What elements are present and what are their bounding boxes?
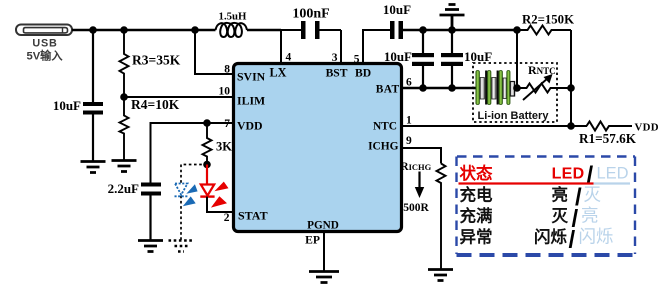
svg-text:ICHG: ICHG [368, 141, 399, 153]
svg-text:LED: LED [552, 166, 585, 183]
wire: R2 right drop [570, 30, 572, 126]
wire: ICHG [402, 148, 441, 164]
inductor L1 1.5uH [216, 11, 248, 38]
svg-text:3: 3 [332, 52, 338, 64]
wire: SVIN drop [195, 30, 233, 74]
capacitor C1 10uF [53, 30, 103, 161]
table row 3: 充满 灭 / 亮 [460, 206, 599, 233]
LED state table dashed box [457, 157, 637, 256]
ground: below R4 [112, 161, 137, 172]
battery BT1 dashed box [473, 63, 557, 122]
capacitor C5 10uF [384, 30, 434, 88]
wire: LX riser [280, 30, 282, 63]
svg-text:5: 5 [354, 54, 360, 66]
svg-text:2: 2 [224, 212, 230, 224]
capacitor C2 2.2uF [108, 181, 161, 240]
ground: below RICHG [428, 270, 453, 281]
wire: top output rail [403, 29, 517, 31]
node A: input cap junction [89, 26, 97, 34]
svg-text:R1=57.6K: R1=57.6K [579, 131, 637, 146]
svg-text:8: 8 [224, 64, 230, 76]
wire: BAT rail [402, 87, 476, 89]
svg-text:ILIM: ILIM [237, 94, 265, 108]
wire: ILIM to node C [124, 96, 233, 98]
LED D1 (red) [200, 165, 233, 213]
svg-text:6: 6 [406, 77, 412, 89]
svg-text:RICHG: RICHG [401, 161, 432, 173]
ground: below EP [309, 272, 339, 283]
table row 4: 异常 闪烁 / 闪烁 [460, 227, 614, 254]
node K [448, 84, 456, 92]
svg-text:2.2uF: 2.2uF [108, 181, 139, 196]
svg-text:10uF: 10uF [383, 2, 411, 17]
wire: dashed alternate LED branch [181, 165, 207, 241]
resistor R4 10K [120, 97, 180, 160]
ground: below C2 [138, 241, 163, 252]
ground: inverted above rail [440, 5, 465, 31]
thermistor RNTC [517, 63, 571, 100]
svg-text:SVIN: SVIN [237, 70, 266, 84]
resistor R1 57.6K [579, 122, 659, 147]
svg-text:亮: 亮 [552, 185, 569, 205]
node M [567, 84, 575, 92]
capacitor C3 100nF [281, 7, 341, 40]
svg-text:R4=10K: R4=10K [131, 97, 180, 112]
wire: NTC line [402, 125, 587, 127]
svg-text:7: 7 [224, 118, 230, 130]
svg-text:状态: 状态 [460, 163, 494, 183]
svg-text:500R: 500R [403, 202, 429, 214]
ground: dashed alt ground [169, 241, 194, 252]
node N [567, 122, 575, 130]
svg-text:VDD: VDD [635, 122, 659, 134]
svg-text:BAT: BAT [376, 84, 400, 96]
node B: R3 top junction [120, 26, 128, 34]
node D: SVIN junction [191, 26, 199, 34]
wire: battery + to rail [516, 30, 518, 88]
svg-text:BST: BST [326, 67, 348, 80]
svg-text:RNTC: RNTC [528, 63, 556, 77]
wire: EP to ground [323, 232, 325, 272]
wire: USB to LX rail [72, 29, 281, 31]
svg-text:10uF: 10uF [464, 49, 492, 64]
svg-text:USB: USB [32, 37, 57, 49]
LED D2 (blue alternate) [175, 184, 198, 207]
ground: below C1 [81, 162, 106, 173]
svg-text:异常: 异常 [460, 227, 493, 247]
svg-text:LX: LX [270, 66, 287, 80]
svg-text:Li-ion Battery: Li-ion Battery [478, 110, 550, 122]
svg-text:EP: EP [305, 234, 320, 247]
USB connector J1 [16, 25, 72, 63]
node C: R3/R4 junction [120, 93, 128, 101]
node F: LED anode junction [203, 161, 211, 169]
node G [419, 26, 427, 34]
svg-text:10: 10 [219, 86, 231, 98]
svg-text:1: 1 [406, 115, 412, 127]
svg-text:充电: 充电 [460, 185, 494, 205]
svg-text:STAT: STAT [238, 209, 268, 223]
node H [448, 26, 456, 34]
wire: VDD net to decoupling [151, 123, 234, 183]
svg-text:PGND: PGND [307, 220, 339, 232]
resistor R3 35K [120, 30, 181, 97]
resistor R5 3K [203, 123, 233, 165]
svg-text:充满: 充满 [460, 206, 493, 226]
node J [419, 84, 427, 92]
battery BT1 cells [473, 71, 549, 123]
svg-text:灭: 灭 [552, 207, 569, 226]
svg-text:R2=150K: R2=150K [522, 13, 574, 27]
IC U1 charger body [234, 64, 402, 232]
svg-text:VDD: VDD [237, 119, 263, 133]
svg-text:灭: 灭 [584, 185, 602, 205]
node L [513, 84, 521, 92]
table row 1: 状态 LED / LED [459, 162, 631, 189]
svg-text:闪烁: 闪烁 [579, 227, 614, 247]
svg-text:闪烁: 闪烁 [534, 227, 568, 247]
resistor RICHG 500R [401, 161, 446, 269]
svg-text:R3=35K: R3=35K [132, 53, 181, 68]
svg-text:NTC: NTC [373, 121, 397, 133]
svg-text:5V输入: 5V输入 [26, 49, 63, 63]
svg-text:1.5uH: 1.5uH [219, 11, 248, 23]
wire: BD riser [363, 30, 390, 63]
node E: 3K top junction [203, 119, 211, 127]
table row 2: 充电 亮 / 灭 [460, 184, 602, 211]
node I: R2 left [513, 26, 521, 34]
resistor R2 150K [517, 13, 574, 35]
svg-text:10uF: 10uF [384, 49, 412, 64]
svg-text:10uF: 10uF [53, 98, 81, 113]
svg-text:4: 4 [286, 52, 292, 64]
svg-text:100nF: 100nF [292, 7, 329, 22]
svg-text:BD: BD [355, 67, 371, 80]
wire: BST riser [340, 30, 342, 63]
svg-text:3K: 3K [216, 140, 232, 154]
svg-text:LED: LED [597, 165, 629, 183]
svg-text:9: 9 [406, 135, 412, 147]
capacitor C4 10uF (series) [383, 2, 411, 39]
svg-text:/: / [569, 227, 576, 254]
svg-text:亮: 亮 [581, 206, 599, 226]
capacitor C6 10uF [441, 30, 492, 88]
